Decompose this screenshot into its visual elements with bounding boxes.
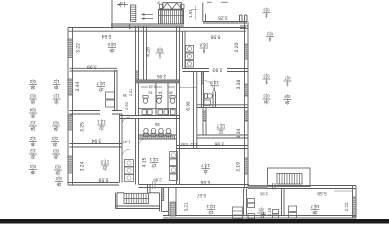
svg-text:5.59: 5.59 xyxy=(98,177,108,183)
svg-text:16: 16 xyxy=(148,91,152,95)
svg-text:2.96: 2.96 xyxy=(153,177,162,182)
svg-text:0.93: 0.93 xyxy=(125,102,129,109)
svg-text:1.2: 1.2 xyxy=(29,136,36,141)
svg-text:3.42: 3.42 xyxy=(190,142,197,146)
svg-text:22: 22 xyxy=(30,154,35,159)
svg-text:0.84: 0.84 xyxy=(181,142,188,146)
svg-text:4.15: 4.15 xyxy=(142,157,148,167)
svg-text:16.7: 16.7 xyxy=(310,204,319,209)
svg-text:1.2: 1.2 xyxy=(29,121,36,126)
svg-text:18: 18 xyxy=(56,182,61,187)
svg-text:36: 36 xyxy=(30,142,35,147)
svg-text:16: 16 xyxy=(54,99,59,104)
svg-text:1.2: 1.2 xyxy=(29,149,36,154)
svg-text:36: 36 xyxy=(155,122,161,127)
svg-text:10.1: 10.1 xyxy=(206,204,215,209)
svg-text:3.25: 3.25 xyxy=(218,15,228,21)
svg-text:22: 22 xyxy=(99,126,105,131)
svg-text:12.1: 12.1 xyxy=(97,119,106,124)
svg-text:2.22: 2.22 xyxy=(344,202,349,211)
svg-text:8.6: 8.6 xyxy=(156,47,163,52)
svg-text:13: 13 xyxy=(208,210,214,215)
svg-text:15: 15 xyxy=(54,85,59,90)
svg-text:1.3: 1.3 xyxy=(53,94,60,99)
svg-text:3.21: 3.21 xyxy=(184,202,189,211)
svg-text:34: 34 xyxy=(158,91,162,95)
svg-text:3.5: 3.5 xyxy=(258,207,264,212)
svg-text:3.44: 3.44 xyxy=(75,81,81,91)
svg-text:19: 19 xyxy=(30,99,35,104)
svg-text:5.58: 5.58 xyxy=(317,190,327,196)
svg-text:0.3: 0.3 xyxy=(52,121,59,126)
svg-text:3.24: 3.24 xyxy=(80,161,86,171)
svg-text:14: 14 xyxy=(30,126,35,131)
svg-text:0.3: 0.3 xyxy=(52,149,59,154)
svg-text:5.64: 5.64 xyxy=(101,33,111,39)
svg-text:0.3: 0.3 xyxy=(51,136,58,141)
svg-text:2.93: 2.93 xyxy=(212,66,222,72)
svg-text:19: 19 xyxy=(55,170,60,175)
svg-text:2.20: 2.20 xyxy=(234,42,240,52)
svg-text:28: 28 xyxy=(109,48,115,53)
svg-text:39: 39 xyxy=(123,93,127,97)
svg-text:12.1: 12.1 xyxy=(149,157,158,162)
svg-text:1.91: 1.91 xyxy=(188,9,193,18)
svg-text:0.7: 0.7 xyxy=(284,76,291,81)
svg-text:2.95: 2.95 xyxy=(157,73,167,79)
svg-text:17.7: 17.7 xyxy=(201,163,210,168)
svg-text:0.3: 0.3 xyxy=(263,7,270,12)
svg-text:1.81: 1.81 xyxy=(148,85,155,89)
svg-text:1.2: 1.2 xyxy=(53,79,60,84)
svg-text:0.3: 0.3 xyxy=(54,165,61,170)
svg-text:2.01: 2.01 xyxy=(129,89,133,96)
svg-text:18.0: 18.0 xyxy=(107,42,116,47)
svg-text:24: 24 xyxy=(30,85,35,90)
svg-text:27: 27 xyxy=(98,87,104,92)
svg-text:2.95: 2.95 xyxy=(259,192,268,197)
svg-text:0.3: 0.3 xyxy=(263,74,270,79)
svg-text:0.4: 0.4 xyxy=(29,79,36,84)
svg-text:3.19: 3.19 xyxy=(236,162,242,172)
svg-text:3.99: 3.99 xyxy=(87,64,97,70)
svg-text:3.38: 3.38 xyxy=(236,79,242,89)
svg-text:24: 24 xyxy=(53,126,58,131)
svg-text:0.9: 0.9 xyxy=(284,94,291,99)
svg-text:3.34: 3.34 xyxy=(236,128,242,138)
svg-text:16.8: 16.8 xyxy=(199,42,208,47)
svg-text:26: 26 xyxy=(30,113,35,118)
svg-text:3.25: 3.25 xyxy=(80,122,86,132)
svg-text:38: 38 xyxy=(30,170,35,175)
svg-text:23: 23 xyxy=(52,142,57,147)
svg-text:3.96: 3.96 xyxy=(214,141,224,147)
svg-text:18: 18 xyxy=(285,100,290,105)
svg-text:11: 11 xyxy=(203,169,208,174)
svg-text:30: 30 xyxy=(169,91,173,95)
svg-text:21: 21 xyxy=(102,166,108,171)
svg-text:5.58: 5.58 xyxy=(210,34,220,40)
svg-text:17: 17 xyxy=(151,163,157,168)
svg-text:0.3: 0.3 xyxy=(55,176,62,181)
svg-text:12: 12 xyxy=(218,130,224,135)
svg-text:1.47: 1.47 xyxy=(123,140,130,144)
svg-text:3.94: 3.94 xyxy=(91,138,101,144)
svg-text:0.3: 0.3 xyxy=(29,94,36,99)
svg-text:28: 28 xyxy=(312,210,318,215)
svg-text:0.3: 0.3 xyxy=(29,164,36,169)
svg-text:5.56: 5.56 xyxy=(200,179,210,185)
svg-text:6.99: 6.99 xyxy=(186,101,191,110)
svg-text:12.5: 12.5 xyxy=(210,80,219,85)
svg-text:3.22: 3.22 xyxy=(76,43,82,53)
svg-text:0.4: 0.4 xyxy=(29,108,36,113)
svg-text:17.0: 17.0 xyxy=(100,159,109,164)
svg-text:12.7: 12.7 xyxy=(216,123,225,128)
svg-text:0.3: 0.3 xyxy=(263,94,270,99)
svg-text:34: 34 xyxy=(264,99,269,104)
svg-text:5.57: 5.57 xyxy=(197,192,207,198)
svg-text:10.7: 10.7 xyxy=(96,81,105,86)
svg-text:0.3: 0.3 xyxy=(266,31,273,36)
svg-text:4.28: 4.28 xyxy=(146,47,152,57)
svg-text:1.0: 1.0 xyxy=(121,1,126,5)
svg-text:20: 20 xyxy=(53,154,58,159)
svg-text:4.18: 4.18 xyxy=(267,207,272,216)
